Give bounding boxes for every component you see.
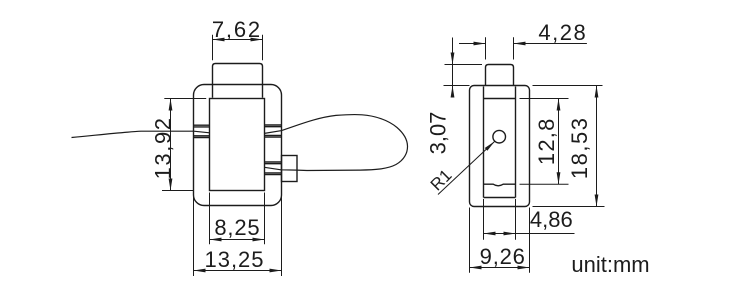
svg-text:R1: R1 xyxy=(427,166,456,195)
svg-text:18,53: 18,53 xyxy=(567,117,592,180)
svg-text:13,92: 13,92 xyxy=(150,116,175,179)
svg-text:7,62: 7,62 xyxy=(212,17,262,42)
svg-text:8,25: 8,25 xyxy=(214,215,260,240)
svg-text:12,8: 12,8 xyxy=(534,117,559,165)
svg-text:9,26: 9,26 xyxy=(480,244,526,269)
svg-text:13,25: 13,25 xyxy=(204,247,264,272)
svg-text:unit:mm: unit:mm xyxy=(571,252,649,277)
svg-text:3,07: 3,07 xyxy=(426,112,451,155)
svg-text:4,28: 4,28 xyxy=(538,20,587,45)
svg-text:4,86: 4,86 xyxy=(530,207,573,232)
